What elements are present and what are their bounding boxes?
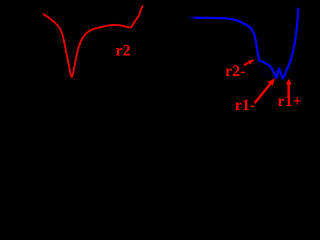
arrow r1- shaft [255, 84, 271, 103]
blue curve flat top and descent [196, 18, 260, 61]
svg-text:r2: r2 [116, 42, 131, 59]
svg-text:r1-: r1- [235, 97, 255, 114]
blue scatter dot b [263, 72, 265, 74]
blue curve fade-in tail [188, 17, 197, 19]
arrow r2- head [248, 59, 255, 64]
curve r2 (red reflection dip) [44, 6, 143, 77]
arrow r2- shaft [244, 63, 248, 65]
arrow r1- head [268, 78, 275, 86]
blue curve gentle slope and W double dip [260, 60, 288, 78]
blue scatter dot c [268, 74, 270, 76]
blue scatter dot a [259, 65, 261, 67]
arrow r1+ head [286, 79, 292, 85]
arrow r1+ shaft [288, 85, 290, 96]
blue curve right rising branch [288, 9, 299, 68]
curve r2 fade-in tail [43, 14, 46, 16]
svg-text:r2-: r2- [225, 63, 245, 80]
